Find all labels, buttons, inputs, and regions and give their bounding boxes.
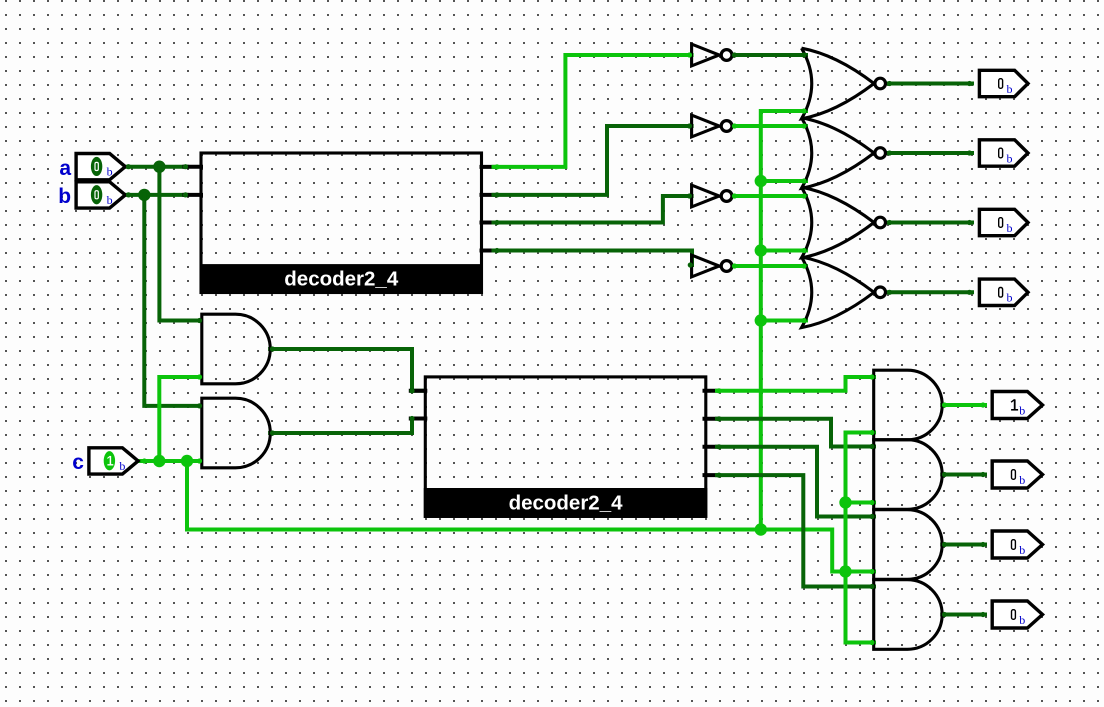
wire NOR G1 output (low) to output pin O1 — [887, 82, 972, 86]
node AND A8 output terminal — [942, 612, 947, 617]
wire U2 D1 (low) to AND A6 input 1 — [717, 419, 874, 447]
svg-text:decoder2_4: decoder2_4 — [509, 492, 624, 515]
node U2 input A terminal — [409, 388, 414, 393]
wire AND A7 output to output pin O7 — [942, 543, 985, 547]
node junction net-c at vertical branch — [153, 455, 165, 467]
node AND A6 input 1 terminal — [869, 444, 874, 449]
node AND A3 input 2 terminal — [197, 374, 202, 379]
wire U1 D0 (high) to inverter N1 — [494, 55, 692, 167]
node NOR G1 input 1 terminal — [801, 52, 806, 57]
wire inverter N2 output to NOR G2 input 1 — [733, 124, 807, 128]
wire NOR G2 output (low) to output pin O2 — [887, 151, 972, 155]
svg-text:b: b — [1007, 82, 1013, 96]
node output pin O2 wire terminal — [967, 150, 972, 155]
node NOR G3 input 1 terminal — [801, 193, 806, 198]
NOR gate G4 — [802, 257, 886, 328]
decoder U1 output stub D3 — [482, 249, 495, 253]
AND gate A5 — [874, 370, 943, 440]
node inverter N1 output terminal — [732, 52, 737, 57]
node U2 output D3 terminal — [716, 473, 721, 478]
svg-text:b: b — [107, 193, 113, 207]
node U2 output D2 terminal — [716, 444, 721, 449]
wire AND A8 output to output pin O8 — [942, 613, 985, 617]
node NOR G4 input 1 terminal — [801, 263, 806, 268]
node U1 input A terminal — [183, 164, 188, 169]
AND gate A6 — [874, 440, 943, 510]
node junction net-c at down branch — [181, 455, 193, 467]
node U1 output D3 terminal — [494, 248, 499, 253]
wire net-c from junction up to AND A3 input 2 — [159, 377, 201, 461]
svg-text:c: c — [72, 451, 84, 474]
node AND A7 output terminal — [942, 542, 947, 547]
node junction net-c at NOR G3 branch — [755, 244, 767, 256]
node AND A8 input 1 terminal — [869, 584, 874, 589]
AND gate A8 — [874, 580, 942, 650]
node junction net-c with NOR bus — [755, 523, 767, 535]
output pin O3 (value 0) — [979, 209, 1028, 235]
node AND A8 input 2 terminal — [869, 640, 874, 645]
node U2 output D0 terminal — [716, 388, 721, 393]
node NOR G1 input 2 terminal — [801, 108, 806, 113]
node pin c tip terminal — [142, 458, 147, 463]
node U2 input B terminal — [409, 416, 414, 421]
node NOR G4 input 2 terminal — [801, 318, 806, 323]
node inverter N2 input terminal — [687, 123, 692, 128]
wire net-c bus2 vertical feeding AND A5-A8 input 2 — [846, 433, 875, 643]
node inverter N2 output terminal — [732, 123, 737, 128]
svg-text:decoder2_4: decoder2_4 — [284, 268, 399, 291]
node U1 output D2 terminal — [494, 220, 499, 225]
node inverter N4 input terminal — [688, 262, 693, 267]
decoder U1 output stub D1 — [482, 193, 495, 197]
svg-text:b: b — [1007, 221, 1013, 235]
decoder U2 output stub D2 — [705, 445, 719, 449]
node NOR G3 output terminal — [887, 220, 892, 225]
AND gate A7 — [874, 510, 942, 580]
output pin O1 (value 0) — [979, 70, 1028, 96]
node junction bus2 at AND A7 branch — [839, 565, 851, 577]
wire AND A5 output to output pin O5 — [942, 403, 985, 407]
wire net-b branch down to AND gate A4 input 1 — [144, 195, 201, 406]
output pin O6 (value 0) — [992, 461, 1042, 488]
node NOR G2 input 1 terminal — [801, 123, 806, 128]
node AND A7 input 2 terminal — [869, 569, 874, 574]
wire net-c branch to NOR G4 input 2 — [761, 319, 806, 323]
node NOR G4 output terminal — [887, 290, 892, 295]
wire AND A4 output (low) to decoder U2 input B — [270, 419, 424, 434]
node NOR G2 output terminal — [887, 150, 892, 155]
svg-text:b: b — [119, 459, 125, 473]
input pin a (value 0) — [59, 154, 125, 181]
decoder U2 output stub D3 — [705, 473, 719, 477]
decoder U2 input stub A — [411, 389, 426, 393]
decoder U2 decoder2_4 — [424, 377, 708, 518]
node AND A5 output terminal — [942, 402, 947, 407]
AND gate A3 — [202, 314, 270, 384]
svg-text:a: a — [59, 157, 71, 180]
node inverter N3 input terminal — [687, 193, 692, 198]
wire net-c branch to AND A7 input 2 — [846, 570, 875, 574]
wire U1 D2 (low) to inverter N3 — [494, 196, 692, 223]
wire U1 D1 (low) to inverter N2 — [494, 126, 692, 195]
node A junction on net-a — [153, 161, 165, 173]
node NOR G1 output terminal — [887, 81, 892, 86]
input pin c (value 1) — [72, 448, 138, 474]
node output pin O8 wire terminal — [980, 612, 985, 617]
wire net-c branch to NOR G3 input 2 — [761, 249, 806, 253]
decoder U1 input stub A — [185, 165, 202, 169]
node AND A7 input 1 terminal — [869, 514, 874, 519]
decoder U1 input stub B — [185, 193, 202, 197]
decoder U1 decoder2_4 — [200, 153, 484, 294]
node output pin O1 wire terminal — [967, 81, 972, 86]
output pin O4 (value 0) — [979, 279, 1028, 305]
svg-text:b: b — [1007, 291, 1013, 305]
wire U1 D3 (low) to inverter N4 — [494, 251, 693, 266]
AND gate A4 — [202, 398, 270, 468]
output pin O2 (value 0) — [979, 140, 1028, 166]
wire net-b from pin b to decoder U1 input B — [125, 193, 187, 197]
decoder U1 output stub D2 — [482, 221, 495, 225]
node B junction on net-b — [138, 189, 150, 201]
node pin a tip terminal — [126, 164, 131, 169]
node AND A3 output terminal — [270, 346, 275, 351]
wire AND A3 output (low) to decoder U2 input A — [270, 349, 424, 391]
inverter N3 — [692, 185, 732, 207]
node AND A5 input 1 terminal — [869, 374, 874, 379]
wire NOR G4 output (low) to output pin O4 — [887, 290, 972, 294]
node NOR G3 input 2 terminal — [801, 248, 806, 253]
decoder U1 output stub D0 — [482, 165, 495, 169]
wire AND A6 output to output pin O6 — [942, 473, 985, 477]
svg-text:b: b — [107, 165, 113, 179]
node pin b tip terminal — [126, 192, 131, 197]
svg-text:b: b — [1019, 403, 1025, 417]
node inverter N4 output terminal — [732, 263, 737, 268]
node AND A6 output terminal — [942, 472, 947, 477]
wire inverter N3 output to NOR G3 input 1 — [733, 194, 807, 198]
node NOR G2 input 2 terminal — [801, 178, 806, 183]
node U1 output D1 terminal — [494, 192, 499, 197]
inverter N2 — [692, 115, 732, 137]
wire U2 D2 (low) to AND A7 input 1 — [717, 447, 874, 517]
node output pin O4 wire terminal — [967, 290, 972, 295]
output pin O8 (value 0) — [992, 601, 1042, 628]
wire inverter N1 output to NOR G1 input 1 — [733, 53, 807, 57]
wire net-a from pin a to decoder U1 input A — [125, 165, 187, 169]
svg-text:b: b — [1019, 543, 1025, 557]
node AND A5 input 2 terminal — [869, 430, 874, 435]
node AND A4 output terminal — [270, 430, 275, 435]
node junction net-c at NOR G2 branch — [755, 175, 767, 187]
svg-text:b: b — [58, 185, 71, 208]
node AND A6 input 2 terminal — [869, 500, 874, 505]
wire net-c long run to bottom-right AND gates — [187, 461, 846, 572]
wire inverter N4 output to NOR G4 input 1 — [733, 264, 807, 268]
node U1 output D0 terminal — [494, 164, 499, 169]
node U2 output D1 terminal — [716, 416, 721, 421]
input pin b (value 0) — [58, 182, 125, 208]
node U1 input B terminal — [183, 192, 188, 197]
output pin O5 (value 1) — [992, 392, 1042, 419]
node output pin O3 wire terminal — [967, 220, 972, 225]
NOR gate G2 — [802, 118, 886, 189]
inverter N1 — [692, 44, 732, 66]
node output pin O7 wire terminal — [980, 542, 985, 547]
wire net-c vertical bus to NOR gates — [761, 111, 806, 530]
wire U2 D0 (high) to AND A5 input 1 — [717, 377, 874, 391]
wire NOR G3 output (low) to output pin O3 — [887, 221, 972, 225]
svg-text:b: b — [1019, 473, 1025, 487]
node junction bus2 at AND A6 branch — [839, 496, 851, 508]
node inverter N1 input terminal — [687, 52, 692, 57]
node AND A3 input 1 terminal — [197, 318, 202, 323]
output pin O7 (value 0) — [992, 531, 1042, 558]
node inverter N3 output terminal — [732, 193, 737, 198]
wire net-a branch down to AND gate A3 input 1 — [159, 167, 201, 321]
decoder U2 input stub B — [411, 417, 426, 421]
node AND A4 input 1 terminal — [197, 403, 202, 408]
svg-text:b: b — [1007, 151, 1013, 165]
node AND A4 input 2 terminal — [197, 458, 202, 463]
wire U2 D3 (low) to AND A8 input 1 — [717, 475, 874, 586]
inverter N4 — [692, 255, 732, 277]
NOR gate G1 — [802, 48, 886, 119]
node output pin O6 wire terminal — [980, 472, 985, 477]
node junction net-c at NOR G4 branch — [755, 314, 767, 326]
wire net-c branch to AND A6 input 2 — [846, 501, 875, 505]
node output pin O5 wire terminal — [980, 402, 985, 407]
wire net-c from pin c to AND A4 input 2 — [139, 459, 201, 463]
wire net-c branch to NOR G2 input 2 — [761, 179, 806, 183]
decoder U2 output stub D1 — [705, 417, 719, 421]
decoder U2 output stub D0 — [705, 389, 719, 393]
NOR gate G3 — [802, 187, 886, 258]
svg-text:b: b — [1019, 613, 1025, 627]
